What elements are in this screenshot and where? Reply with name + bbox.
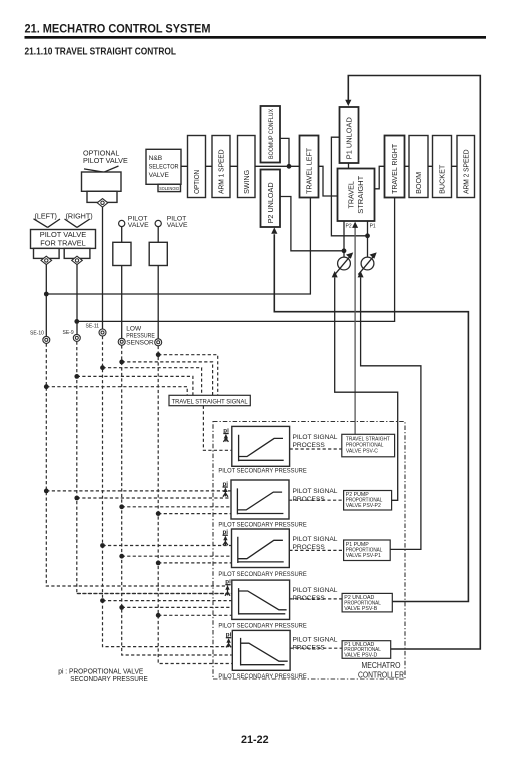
node graph3 LP1 (119, 554, 124, 559)
svg-text:21-22: 21-22 (241, 734, 269, 746)
label pi graph 5 (226, 632, 232, 648)
leader lines right (65, 219, 90, 227)
dashed graph4 input LP1 (122, 606, 232, 608)
footnote pi definition (58, 669, 148, 684)
svg-text:SE-11: SE-11 (86, 324, 100, 330)
dashed graph2 input LP2 (158, 513, 231, 515)
svg-text:PILOT VALVE: PILOT VALVE (40, 230, 87, 239)
svg-text:VALVE PSV-P1: VALVE PSV-P1 (346, 553, 381, 559)
node low pressure 2 signal (156, 352, 161, 357)
wire valve row mid-line segments (181, 165, 457, 167)
dashed graph4 input SE-9 (77, 593, 232, 595)
dashed low pressure 1 to signal box (122, 362, 213, 395)
wire PSV-C to travel straight (gray) (354, 227, 356, 435)
pilot valve for travel box (31, 230, 96, 249)
svg-text:P2 UNLOAD: P2 UNLOAD (266, 182, 275, 223)
svg-text:TRAVEL LEFT: TRAVEL LEFT (305, 147, 314, 194)
dashed low pressure 1 drop (122, 345, 232, 655)
label low pressure sensor (126, 326, 155, 347)
node graph3 SE-11 (100, 543, 105, 548)
graph 3 pilot signal process box (232, 529, 290, 568)
sensor SE-10 (43, 336, 50, 343)
dashed graph3 input LP2 (158, 562, 231, 564)
dashed graph4 input SE-11 (103, 600, 232, 602)
node SE-10 travel left junction (44, 292, 49, 297)
wire PSV-P2 to P2 pump pilot (335, 278, 398, 501)
svg-text:(RIGHT): (RIGHT) (66, 211, 93, 220)
svg-text:FOR TRAVEL: FOR TRAVEL (40, 239, 86, 248)
wire P1 unload bottom to travel straight top (348, 163, 350, 169)
wire travel straight P2 to pump (343, 221, 345, 258)
dashed graph2 input LP1 (122, 506, 231, 508)
dashed link graph1 to PSV-C (290, 448, 342, 450)
arrow into P2 unload bottom (271, 227, 277, 233)
node P2 feed junction (342, 248, 347, 253)
N&B selector valve box (146, 149, 181, 184)
node junction valve row (287, 164, 292, 169)
svg-text:BOOMUP CONFLUX: BOOMUP CONFLUX (268, 109, 275, 159)
graph 2 pilot signal process box (231, 480, 289, 519)
svg-text:PILOT SECONDARY PRESSURE: PILOT SECONDARY PRESSURE (218, 467, 307, 474)
svg-text:SE-10: SE-10 (30, 330, 44, 336)
PSV-P2 box (344, 491, 392, 511)
dashed SE-11 to signal box (103, 368, 202, 396)
node graph4 LP1 (119, 605, 124, 610)
pump P1 (358, 252, 376, 274)
svg-text:VALVE: VALVE (167, 222, 188, 229)
valve BOOM (409, 136, 428, 198)
wire pilot valve 1 down to sensor (121, 266, 123, 339)
svg-text:SOLENOID: SOLENOID (159, 186, 180, 191)
label mechatro controller (358, 661, 404, 680)
node graph2 SE-10 (44, 489, 49, 494)
dashed SE-10 to signal box (46, 387, 187, 396)
label pi graph 3 (223, 529, 229, 545)
optional pilot valve lower body (87, 191, 117, 202)
wire left travel pilot down to SE-10 (45, 265, 47, 337)
PSV-B box (342, 593, 392, 612)
node graph2 LP2 (156, 511, 161, 516)
wire PSV-P1 to P1 pump pilot (361, 278, 421, 550)
wire travel straight to travel right zigzag (375, 166, 385, 189)
svg-text:SENSOR: SENSOR (126, 339, 154, 346)
wire pilot valve 2 down to sensor (157, 266, 159, 339)
sensor SE-9 (73, 334, 80, 341)
node SE-9 travel right junction (74, 319, 79, 324)
svg-text:P1 UNLOAD: P1 UNLOAD (345, 117, 354, 159)
leader lines left (34, 219, 61, 228)
leader lines optional pilot valve (84, 166, 119, 172)
arrow P2 pump pilot (332, 271, 338, 277)
valve SWING (238, 136, 256, 198)
wire right travel pilot down to SE-9 (76, 265, 78, 335)
pilot valve 1 (113, 220, 131, 265)
wire travel straight P1 to pump (367, 221, 369, 258)
label pilot signal process 1 (293, 434, 338, 449)
dashed link graph3 to PSV-P1 (289, 549, 343, 551)
travel straight signal box (169, 395, 250, 405)
svg-text:PROCESS: PROCESS (293, 442, 326, 449)
valve ARM 1 SPEED (212, 136, 230, 198)
wire SE-9 line to TRAVEL RIGHT (77, 198, 395, 322)
svg-text:PILOT SIGNAL: PILOT SIGNAL (293, 434, 338, 441)
dashed low pressure 2 drop (158, 346, 232, 664)
arrow into P1 unload top (345, 100, 351, 106)
pump P2 (335, 252, 353, 274)
svg-text:VALVE PSV-D: VALVE PSV-D (344, 653, 377, 659)
dashed SE-9 sensor drop (77, 342, 232, 594)
svg-text:P1: P1 (370, 224, 376, 230)
dashed graph2 input SE-9 (77, 497, 231, 499)
label pilot signal process 3 (293, 536, 338, 551)
PSV-D box (342, 641, 391, 659)
svg-text:SWING: SWING (242, 169, 251, 193)
label pilot signal process 2 (293, 488, 338, 503)
svg-text:MECHATRO: MECHATRO (362, 661, 401, 670)
svg-text:PILOT SECONDARY PRESSURE: PILOT SECONDARY PRESSURE (218, 521, 307, 528)
svg-text:pi : PROPORTIONAL VALVE: pi : PROPORTIONAL VALVE (58, 669, 143, 676)
label pilot valve 2 (167, 215, 188, 229)
svg-text:SECONDARY PRESSURE: SECONDARY PRESSURE (70, 676, 148, 683)
svg-text:PROCESS: PROCESS (293, 595, 326, 602)
valve BOOMUP CONFLUX (261, 106, 281, 163)
pilot valve 2 (149, 220, 167, 265)
wire PSV-B to P2 unload loop (274, 234, 468, 601)
pilot valve for travel left port body (34, 248, 60, 258)
node SE-11 signal (100, 365, 105, 370)
graph 1 pilot signal process box (232, 426, 290, 466)
svg-text:PILOT SECONDARY PRESSURE: PILOT SECONDARY PRESSURE (218, 623, 307, 630)
svg-text:PILOT SIGNAL: PILOT SIGNAL (293, 536, 338, 543)
svg-text:PILOT SIGNAL: PILOT SIGNAL (293, 587, 338, 594)
svg-text:PILOT SIGNAL: PILOT SIGNAL (293, 488, 338, 495)
wire boomup conflux feed (280, 138, 289, 166)
svg-text:21.1.10 TRAVEL STRAIGHT CONT: 21.1.10 TRAVEL STRAIGHT CONTROL (25, 47, 177, 58)
label pilot signal process 5 (293, 636, 338, 651)
svg-text:CONTROLLER: CONTROLLER (358, 671, 404, 680)
svg-text:(LEFT): (LEFT) (35, 211, 57, 220)
svg-text:PILOT SECONDARY PRESSURE: PILOT SECONDARY PRESSURE (218, 673, 307, 680)
sensor low pressure 2 (155, 339, 162, 346)
node graph2 LP1 (119, 504, 124, 509)
label pi graph 2 (223, 481, 229, 497)
svg-text:SE-9: SE-9 (63, 330, 74, 336)
label pilot valve 1 (128, 215, 149, 229)
svg-text:P2: P2 (346, 224, 352, 230)
wire P1 unload left edge to P1 line (331, 137, 367, 236)
label pi graph 4 (225, 579, 231, 596)
svg-text:ARM 1 SPEED: ARM 1 SPEED (217, 149, 226, 194)
port diamond travel right (72, 256, 83, 264)
dashed graph4 input LP2 (158, 614, 232, 616)
wire optional pilot valve to SE-11 (102, 207, 104, 329)
svg-text:BOOM: BOOM (414, 172, 423, 194)
svg-text:OPTION: OPTION (192, 170, 201, 194)
svg-text:N&B: N&B (149, 155, 163, 162)
node P1 feed junction (365, 233, 370, 238)
svg-text:BUCKET: BUCKET (438, 164, 447, 194)
valve BUCKET (433, 136, 452, 198)
valve OPTION (188, 136, 206, 198)
svg-text:ARM 2 SPEED: ARM 2 SPEED (461, 149, 470, 194)
graph 4 pilot signal process box (232, 580, 290, 619)
valve TRAVEL RIGHT (385, 136, 405, 198)
svg-text:STRAIGHT: STRAIGHT (356, 175, 365, 214)
dashed link graph5 to PSV-D (290, 647, 342, 649)
wire P2 unload to P2 pump feed (280, 197, 344, 251)
svg-text:VALVE: VALVE (149, 172, 170, 179)
valve P2 UNLOAD (261, 170, 281, 228)
label pi graph 1 (223, 427, 229, 442)
svg-text:SELECTOR: SELECTOR (149, 163, 179, 170)
optional pilot valve body (82, 172, 122, 191)
optional pilot valve label (83, 148, 128, 165)
arrow P1 pump pilot (358, 271, 364, 277)
svg-text:21. MECHATRO CONTROL SYSTEM: 21. MECHATRO CONTROL SYSTEM (25, 21, 211, 35)
valve TRAVEL STRAIGHT (338, 169, 375, 222)
sensor low pressure 1 (118, 338, 125, 345)
svg-text:PILOT VALVE: PILOT VALVE (83, 156, 128, 165)
dashed SE-11 sensor drop (103, 336, 229, 646)
graph 5 pilot signal process box (232, 630, 290, 670)
svg-text:TRAVEL: TRAVEL (346, 181, 355, 208)
node graph3 LP2 (156, 561, 161, 566)
svg-text:VALVE PSV-B: VALVE PSV-B (344, 606, 378, 612)
node graph4 SE-11 (100, 598, 105, 603)
svg-text:TRAVEL RIGHT: TRAVEL RIGHT (390, 143, 399, 194)
dashed signal box output to graph 1 (203, 406, 231, 451)
dashed graph3 input LP1 (122, 555, 232, 557)
mechatro controller border (213, 422, 405, 680)
dashed graph3 input SE-11 (103, 545, 232, 547)
wire travel left to travel straight zigzag (319, 166, 338, 196)
port diamond travel left (41, 256, 52, 264)
PSV-C box (342, 434, 395, 457)
dashed low pressure 2 to signal box (158, 355, 218, 396)
arrow into travel straight bottom (352, 222, 358, 228)
dashed link graph4 to PSV-B (290, 598, 343, 600)
node SE-9 signal (74, 374, 79, 379)
node graph2 SE-9 (74, 496, 79, 501)
valve P1 UNLOAD (340, 107, 359, 163)
pilot valve for travel right port body (64, 248, 90, 258)
svg-text:PROCESS: PROCESS (293, 496, 326, 503)
valve TRAVEL LEFT (300, 136, 319, 198)
node SE-10 signal (44, 384, 49, 389)
title rule (25, 36, 487, 39)
wire SE-10 line to TRAVEL LEFT (46, 198, 310, 295)
solenoid box (158, 184, 181, 191)
PSV-P1 box (344, 540, 391, 561)
dashed SE-9 to signal box (77, 376, 193, 395)
dashed SE-10 sensor drop (46, 344, 228, 587)
valve ARM 2 SPEED (457, 136, 475, 198)
svg-text:VALVE: VALVE (128, 222, 149, 229)
svg-text:PILOT SECONDARY PRESSURE: PILOT SECONDARY PRESSURE (218, 571, 307, 578)
wire PSV-D to P1 unload loop (348, 76, 480, 650)
port diamond optional pilot valve (97, 199, 108, 207)
dashed graph2 input SE-10 (46, 490, 231, 492)
node graph4 LP2 (156, 613, 161, 618)
sensor SE-11 (99, 329, 106, 336)
label pilot signal process 4 (293, 587, 338, 602)
svg-text:PILOT SIGNAL: PILOT SIGNAL (293, 636, 338, 643)
node low pressure 1 signal (119, 360, 124, 365)
svg-text:TRAVEL STRAIGHT SIGNAL: TRAVEL STRAIGHT SIGNAL (172, 398, 248, 405)
dashed link graph2 to PSV-P2 (289, 499, 344, 501)
svg-text:VALVE PSV-C: VALVE PSV-C (346, 448, 378, 454)
svg-text:VALVE PSV-P2: VALVE PSV-P2 (346, 503, 381, 509)
